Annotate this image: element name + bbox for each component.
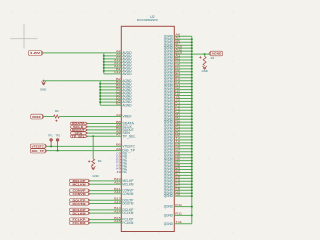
pin number B10: [175, 50, 182, 54]
pin number G1: [175, 83, 180, 87]
wire AGND pin C4: [100, 95, 121, 97]
junction QGND bus row 12: [191, 68, 193, 70]
wire AGND pin E3: [100, 104, 121, 106]
svg-text:P11: P11: [175, 203, 182, 207]
pin number R2: [175, 133, 180, 137]
pin number L2: [175, 110, 180, 114]
wire TP_SEL to pin: [88, 135, 122, 137]
wire DOUTM to pin: [90, 203, 121, 205]
pin number J1: [175, 95, 180, 99]
pin name QGND x1: [164, 205, 174, 209]
svg-text:C12: C12: [114, 70, 121, 74]
pin number A7: [116, 133, 121, 137]
pin number D2: [175, 68, 180, 72]
ground text GND below R1: [202, 69, 208, 73]
junction AGND bus row 8: [99, 101, 101, 103]
wire AGND pin C3: [100, 92, 121, 94]
pin name QGND r50: [164, 179, 174, 183]
svg-text:QGND: QGND: [164, 222, 174, 226]
pin number C5: [175, 142, 180, 146]
pin number G6: [175, 192, 180, 196]
wire AVDD pin B1: [104, 70, 122, 72]
pin number A11: [114, 190, 121, 194]
pin name QGND r49: [164, 177, 174, 181]
wire SDOUT to pin: [88, 129, 122, 131]
pin number B9: [116, 126, 121, 130]
junction AVDD bus row 6: [103, 67, 105, 69]
junction QGND bus row 4: [191, 44, 193, 46]
pin name AGND 9: [122, 103, 132, 107]
pin number P1: [175, 124, 180, 128]
junction QGND bus row 40: [191, 151, 193, 153]
pin name QGND r14: [164, 73, 174, 77]
pin number B13: [114, 197, 121, 201]
net label CONVM: [70, 192, 90, 196]
wire QGND pin A7: [174, 38, 192, 40]
pin name QGND r53: [164, 188, 174, 192]
pin name DCLKM: [122, 211, 133, 215]
pin name NC 4: [122, 167, 128, 171]
pin number T11: [175, 220, 182, 224]
junction QGND bus row 11: [191, 65, 193, 67]
junction QGND bus ext 1: [191, 206, 193, 208]
resistor R2: [54, 115, 60, 122]
svg-text:FCLKM: FCLKM: [73, 221, 86, 225]
junction AGND bus row 3: [99, 86, 101, 88]
pin name QGND r26: [164, 108, 174, 112]
wire QGND pin G5: [174, 192, 192, 194]
wire MCLKM to pin: [90, 183, 121, 185]
pin number N1: [175, 118, 180, 122]
svg-text:DCLKM: DCLKM: [122, 211, 133, 215]
wire DOUTP to pin: [90, 199, 121, 201]
pin name QGND x2: [164, 214, 174, 218]
op IC U2 outline (DOC3258ZWX): [121, 26, 174, 231]
pin name AVDD 1: [122, 51, 132, 55]
pin number H1: [175, 89, 180, 93]
wire QGND pin C2: [174, 65, 192, 67]
junction QGND bus row 48: [191, 174, 193, 176]
svg-text:A10: A10: [114, 181, 121, 185]
pin number A5: [116, 55, 121, 59]
junction QGND bus row 29: [191, 118, 193, 120]
wire QGND pin N2: [174, 124, 192, 126]
net label SDOUT: [71, 129, 88, 133]
junction QGND bus row 3: [191, 41, 193, 43]
wire QGND pin C1: [174, 62, 192, 64]
pin number A6 DIG_TP: [116, 147, 121, 151]
pin name QGND r30: [164, 120, 174, 124]
wire QGND pin G6: [174, 195, 192, 197]
wire FCLKP to pin: [90, 219, 121, 221]
pin name MCLKM: [122, 182, 133, 186]
svg-text:VTESTC: VTESTC: [32, 144, 44, 148]
svg-text:GND: GND: [202, 69, 208, 73]
wire DCLKM to pin: [90, 212, 121, 214]
pin number T2: [175, 139, 180, 143]
svg-text:R1: R1: [211, 56, 215, 60]
junction QGND bus row 19: [191, 89, 193, 91]
svg-text:1.8V: 1.8V: [30, 51, 40, 55]
wire QGND pin D1: [174, 68, 192, 70]
pin number D6: [175, 157, 180, 161]
svg-text:MCLKM: MCLKM: [122, 182, 133, 186]
net label VTESTC: [30, 144, 46, 148]
pin name NC 3: [122, 164, 128, 168]
junction AGND bus row 7: [99, 98, 101, 100]
wire QGND pin N1: [174, 121, 192, 123]
junction QGND bus row 13: [191, 71, 193, 73]
wire QGND pin E5: [174, 169, 192, 171]
pin number R11: [175, 212, 182, 216]
wire AVDD pin A2: [104, 52, 122, 54]
pin number B11: [114, 187, 121, 191]
svg-text:DOUTM: DOUTM: [73, 202, 86, 206]
pin number C7: [175, 148, 180, 152]
net label DOUTM: [70, 202, 90, 206]
pin number A8: [116, 123, 121, 127]
junction QGND bus ext 2: [191, 214, 193, 216]
pin number C9 NU: [116, 152, 121, 156]
wire AGND vertical bus: [99, 81, 101, 105]
junction QGND bus row 26: [191, 109, 193, 111]
origin crosshair marker: [10, 24, 37, 49]
wire QGND pin H1: [174, 92, 192, 94]
pin name AVDD 8: [122, 72, 132, 76]
pin name NC 5: [122, 170, 128, 174]
net label DCLKM: [70, 211, 90, 215]
resistor R1: [199, 56, 206, 65]
svg-text:QGND: QGND: [164, 205, 174, 209]
junction QGND bus row 27: [191, 112, 193, 114]
junction AGND bus row 2: [99, 83, 101, 85]
wire FCLKM to pin: [90, 222, 121, 224]
pin name AVDD 7: [122, 69, 132, 73]
pin number A4: [116, 52, 121, 56]
pin number F9 NC: [116, 161, 121, 165]
wire QGND pin P11: [174, 206, 192, 208]
pin number A2: [116, 49, 121, 53]
pin number F7: [175, 184, 180, 188]
wire QGND pin G2: [174, 89, 192, 91]
junction QGND bus row 43: [191, 160, 193, 162]
pin name QGND r54: [164, 191, 174, 195]
pin name SEN: [122, 131, 130, 135]
pin name FCLKP: [122, 218, 133, 222]
pin number K1: [175, 101, 180, 105]
pin name DCLKP: [122, 208, 133, 212]
junction QGND bus row 16: [191, 80, 193, 82]
svg-text:R4: R4: [98, 159, 102, 163]
pin name QGND r5: [164, 46, 174, 50]
pin name SCLK: [122, 125, 132, 129]
wire QGND pin F7: [174, 186, 192, 188]
junction QGND bus row 28: [191, 115, 193, 117]
junction QGND bus row 54: [191, 192, 193, 194]
wire QGND pin L1: [174, 109, 192, 111]
pin number A3: [116, 113, 121, 117]
wire QGND pin D6: [174, 160, 192, 162]
wire R2 to VREF pin: [59, 116, 121, 118]
wire DIG_TP to pin: [47, 150, 122, 152]
svg-text:TP_SEL: TP_SEL: [122, 134, 135, 138]
svg-text:GND: GND: [40, 88, 46, 92]
junction QGND bus row 23: [191, 100, 193, 102]
junction QGND bus row 30: [191, 121, 193, 123]
junction QGND bus row 46: [191, 169, 193, 171]
junction QGND bus row 32: [191, 127, 193, 129]
wire AGND pin B4: [100, 86, 121, 88]
testpoint TP2 name: [55, 134, 60, 137]
junction QGND bus row 25: [191, 106, 193, 108]
wire QGND pin A1: [174, 56, 192, 58]
wire QGND pin E2: [174, 77, 192, 79]
pin name QGND r45: [164, 165, 174, 169]
wire QGND bus to AGND label: [192, 53, 209, 55]
wire 1.8V to AVDD bus: [43, 52, 104, 54]
pin number P11: [175, 203, 182, 207]
junction QGND bus row 42: [191, 157, 193, 159]
pin number C6: [175, 145, 180, 149]
wire AGND pin B5: [100, 89, 121, 91]
pin name QGND r2: [164, 37, 174, 41]
pin number B2: [116, 77, 121, 81]
junction QGND bus row 6: [191, 50, 193, 52]
wire CONVM to pin: [90, 193, 121, 195]
junction QGND bus row 49: [191, 177, 193, 179]
pin name QGND r43: [164, 159, 174, 163]
wire QGND pin T1: [174, 139, 192, 141]
pin number K2: [175, 104, 180, 108]
svg-text:TP_SEL: TP_SEL: [72, 136, 86, 139]
wire DCLKP to pin: [90, 209, 121, 211]
pin name DOUTM: [122, 202, 133, 206]
wire AVDD pin A14: [104, 67, 122, 69]
pin name DOUTP: [122, 198, 133, 202]
junction QGND bus row 21: [191, 95, 193, 97]
svg-text:DOUTM: DOUTM: [122, 202, 133, 206]
pin number A14: [114, 209, 121, 213]
junction QGND bus row 51: [191, 183, 193, 185]
wire QGND pin D8: [174, 166, 192, 168]
pin number A15: [114, 219, 121, 223]
pin number B6 VTESTC: [116, 143, 121, 147]
pin number G9 NC: [116, 164, 121, 168]
pin name QGND r27: [164, 111, 174, 115]
pin number R1: [175, 130, 180, 134]
svg-text:TP2: TP2: [55, 134, 60, 137]
pin number A13: [114, 200, 121, 204]
wire QGND pin P1: [174, 127, 192, 129]
pin name QGND r3: [164, 40, 174, 44]
wire QGND pin E7: [174, 174, 192, 176]
pin number E3: [116, 102, 121, 106]
junction AVDD bus row 2: [103, 55, 105, 57]
wire AVDD pin A5: [104, 58, 122, 60]
pin number A12: [114, 58, 121, 62]
wire MCLKP to pin: [90, 180, 121, 182]
pin number F1: [175, 77, 180, 81]
pin name QGND r6: [164, 49, 174, 53]
pin name QGND r36: [164, 138, 174, 142]
pin name QGND r9: [164, 58, 174, 62]
pin number J9 NC: [116, 170, 121, 174]
testpoint TP1: [50, 139, 53, 147]
wire QGND pin R2: [174, 136, 192, 138]
wire QGND pin A6: [174, 35, 192, 37]
pin name NU 2: [122, 155, 128, 159]
pin name CONVP: [122, 189, 133, 193]
junction QGND bus row 37: [191, 142, 193, 144]
wire QGND pin K1: [174, 103, 192, 105]
wire QGND pin E6: [174, 172, 192, 174]
junction QGND bus row 55: [191, 195, 193, 197]
pin number L1: [175, 107, 180, 111]
wire QGND pin D2: [174, 71, 192, 73]
svg-text:QGND: QGND: [164, 214, 174, 218]
pin name QGND r47: [164, 171, 174, 175]
pin number A14: [114, 64, 121, 68]
junction QGND bus row 5: [191, 47, 193, 49]
svg-text:T11: T11: [175, 220, 182, 224]
net label MCLKM: [70, 183, 90, 187]
junction QGND bus row 8: [191, 56, 193, 58]
pin name QGND r39: [164, 147, 174, 151]
pin name AGND 3: [122, 85, 132, 89]
wire QGND pin B6: [174, 41, 192, 43]
resistor R4 name: [98, 159, 102, 163]
svg-text:MCLKM: MCLKM: [73, 183, 86, 187]
ground symbol below R1: [202, 66, 206, 69]
pin number C12: [114, 70, 121, 74]
pin name QGND r37: [164, 141, 174, 145]
pin number C2: [175, 62, 180, 66]
svg-text:A15: A15: [114, 219, 121, 223]
pin name QGND r55: [164, 194, 174, 198]
pin number D5: [175, 154, 180, 158]
junction AVDD bus row 5: [103, 64, 105, 66]
wire AGND pin D4: [100, 101, 121, 103]
pin name QGND r33: [164, 129, 174, 133]
junction QGND bus row 2: [191, 38, 193, 40]
net label SEN: [71, 132, 88, 136]
wire VREF label to R2: [44, 116, 54, 118]
net label DOUTP: [70, 198, 90, 202]
pin name AGND 2: [122, 82, 132, 86]
wire AVDD pin A4: [104, 55, 122, 57]
net label DCLKP: [70, 208, 90, 212]
pin number A7: [175, 36, 180, 40]
pin number D4: [116, 98, 121, 102]
wire AGND pin B2: [100, 80, 121, 82]
pin name AGND 8: [122, 100, 132, 104]
wire QGND pin F5: [174, 180, 192, 182]
junction AGND bus row 4: [99, 89, 101, 91]
junction QGND bus row 52: [191, 186, 193, 188]
pin name QGND r22: [164, 97, 174, 101]
wire QGND pin C6: [174, 148, 192, 150]
pin number F5: [175, 178, 180, 182]
pin name CONVM: [122, 192, 133, 196]
pin number B5: [116, 86, 121, 90]
pin number C4: [116, 92, 121, 96]
pin number F2: [175, 80, 180, 84]
pin name QGND r48: [164, 174, 174, 178]
supply label 1.8V: [28, 51, 43, 56]
pin number B4: [116, 83, 121, 87]
pin name QGND r10: [164, 61, 174, 65]
pin name SDOUT: [122, 128, 134, 132]
svg-text:AVDD: AVDD: [122, 72, 132, 76]
net label DIG_TP: [30, 149, 46, 153]
junction QGND bus row 14: [191, 74, 193, 76]
pin name AVDD 6: [122, 66, 132, 70]
pin name AVDD 2: [122, 54, 132, 58]
pin number D3: [116, 95, 121, 99]
junction QGND bus row 53: [191, 189, 193, 191]
wire CONVP to pin: [90, 190, 121, 192]
pin number A13: [114, 61, 121, 65]
pin number F6: [175, 181, 180, 185]
pin number T1: [175, 136, 180, 140]
wire QGND pin F8: [174, 189, 192, 191]
net label VREF: [31, 114, 44, 119]
svg-text:R11: R11: [175, 212, 182, 216]
pin name QGND r25: [164, 105, 174, 109]
pin name QGND r16: [164, 79, 174, 83]
pin name QGND r51: [164, 182, 174, 186]
junction TP2: [57, 150, 59, 152]
pin name SDATA: [122, 122, 134, 126]
ground symbol GND (left): [41, 80, 45, 85]
pin name AVDD 4: [122, 60, 132, 64]
net label TP_SEL: [71, 135, 88, 139]
pin name QGND r11: [164, 64, 174, 68]
wire QGND pin D5: [174, 157, 192, 159]
ground symbol below R4: [91, 166, 95, 169]
pin name AVDD 3: [122, 57, 132, 61]
svg-text:GND: GND: [92, 174, 98, 178]
pin name QGND r23: [164, 100, 174, 104]
svg-text:DOC3258ZWX: DOC3258ZWX: [137, 18, 158, 22]
pin name QGND r31: [164, 123, 174, 127]
pin number N2: [175, 121, 180, 125]
junction QGND bus row 41: [191, 154, 193, 156]
pin number G5: [175, 190, 180, 194]
pin number B8: [116, 120, 121, 124]
pin name QGND r12: [164, 67, 174, 71]
wire QGND pin P2: [174, 130, 192, 132]
svg-text:FCLKM: FCLKM: [122, 221, 133, 225]
junction QGND bus row 10: [191, 62, 193, 64]
svg-text:R2: R2: [55, 109, 59, 113]
pin number A11: [175, 47, 182, 51]
pin name AGND 6: [122, 94, 132, 98]
svg-text:A13: A13: [114, 200, 121, 204]
wire AVDD pin C12: [104, 73, 122, 75]
pin number B3: [116, 80, 121, 84]
wire QGND pin E8: [174, 177, 192, 179]
testpoint TP2: [56, 139, 59, 151]
pin name QGND r17: [164, 82, 174, 86]
wire AGND pin D3: [100, 98, 121, 100]
wire QGND pin C5: [174, 145, 192, 147]
junction QGND bus row 38: [191, 145, 193, 147]
junction QGND bus row 45: [191, 166, 193, 168]
pin number H9 NC: [116, 167, 121, 171]
resistor R4: [88, 159, 95, 166]
pin number F8: [175, 187, 180, 191]
